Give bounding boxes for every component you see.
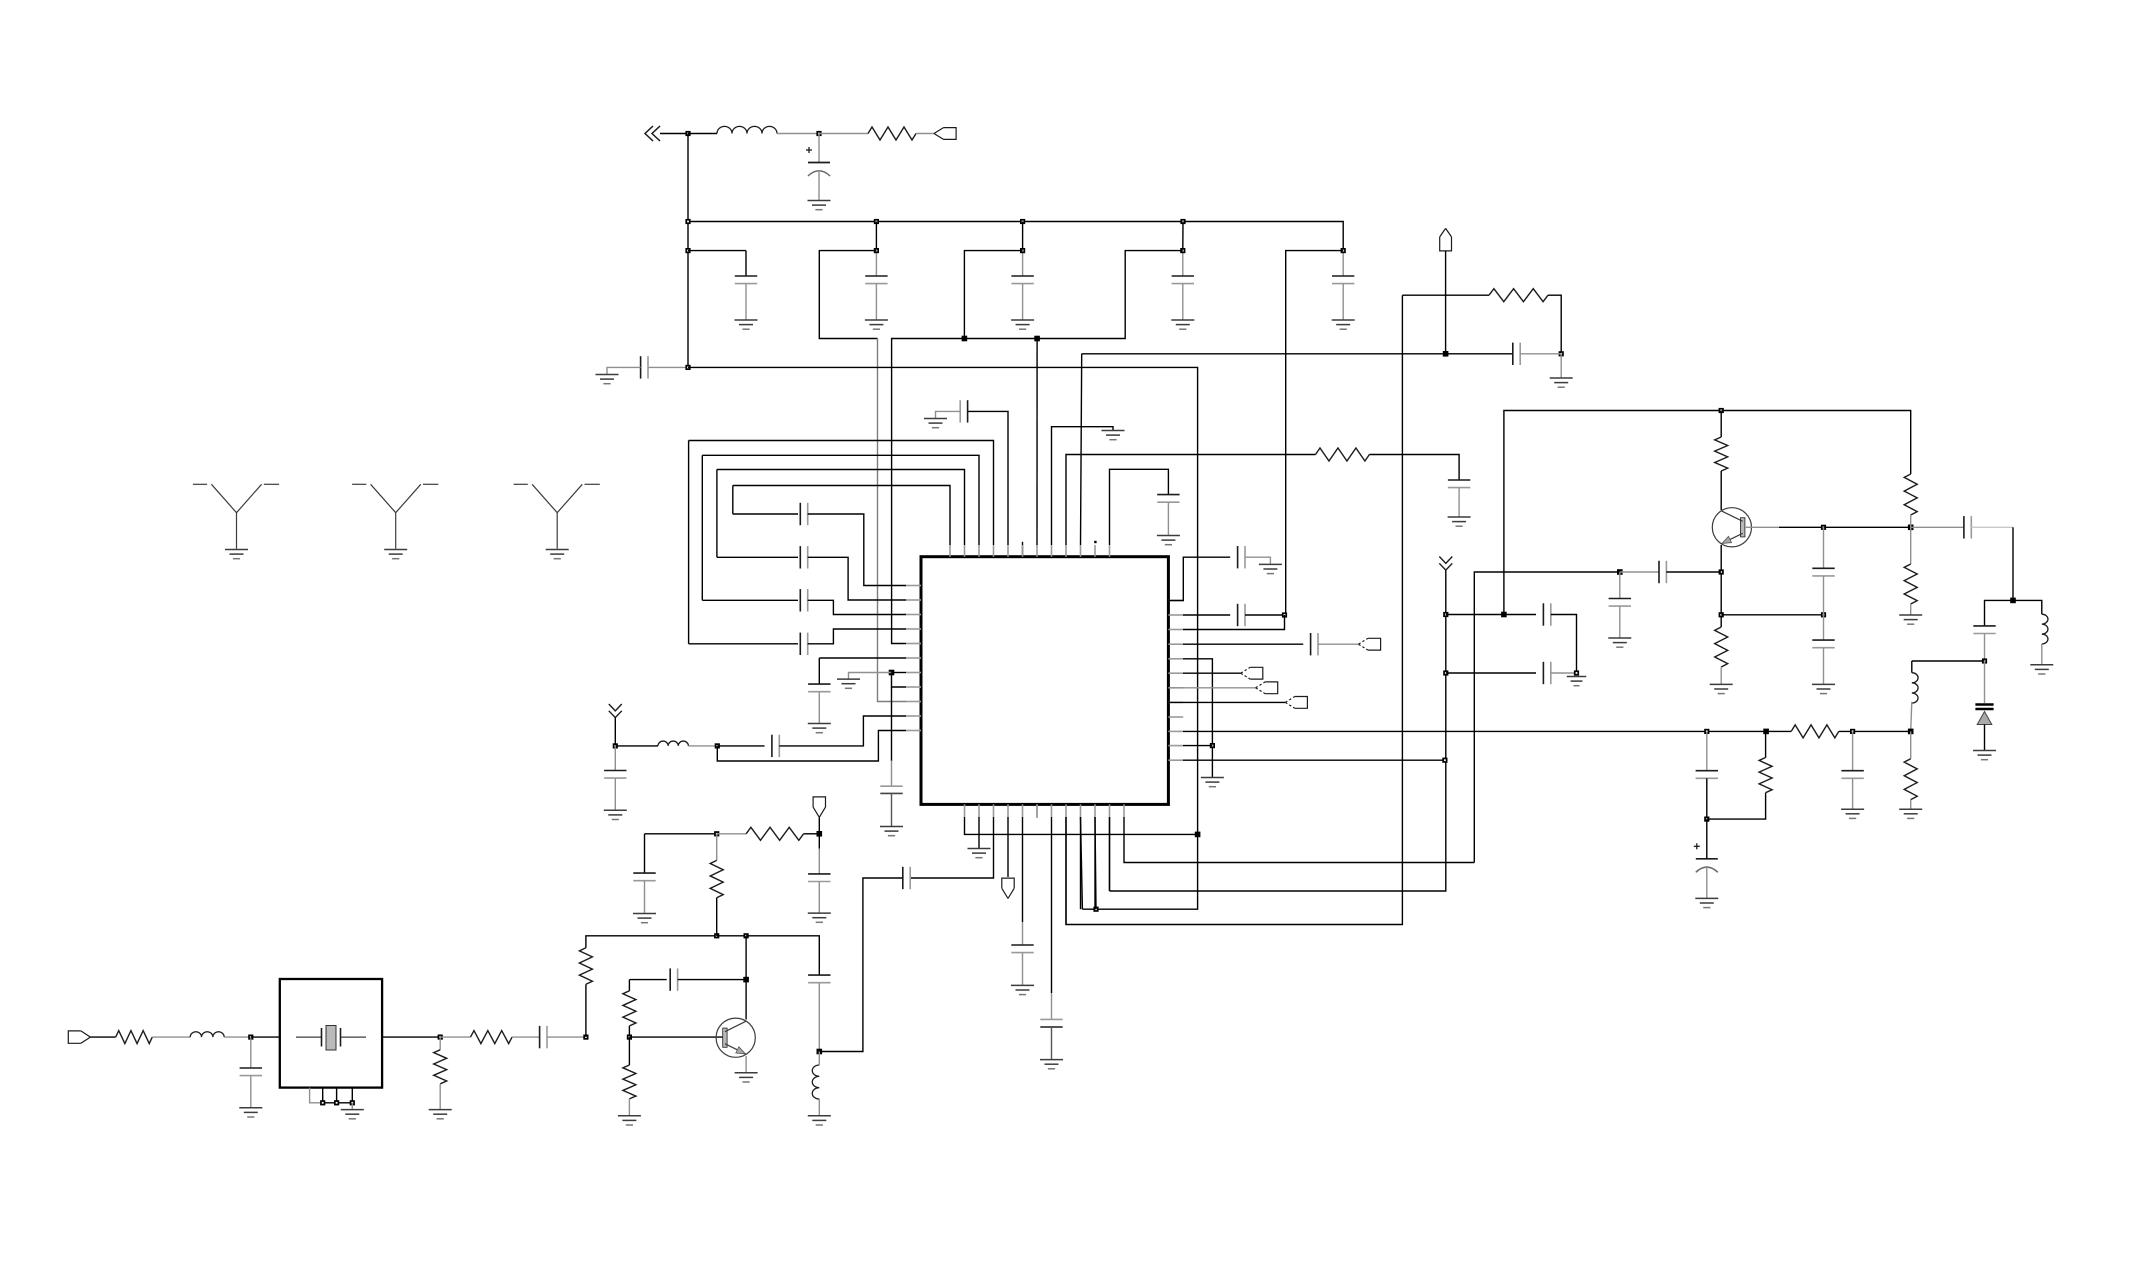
node [1908,729,1914,735]
ground [968,849,991,858]
ground [1011,320,1034,329]
capacitor C (series 673) [1543,662,1550,684]
node [1020,248,1025,253]
wire [614,778,616,810]
resistor R (pin9) [1316,448,1370,461]
port flag (R7) [1256,682,1278,694]
wire [1095,817,1096,909]
node [1210,743,1215,748]
wire [819,878,903,1052]
ground [808,913,831,922]
wire (4th ring to pin) [808,514,906,586]
ground [735,320,758,329]
wire [323,1102,353,1104]
ground [1899,809,1922,818]
ground [735,1073,758,1082]
wire (Q1 collector) [1720,411,1722,438]
wire (R8 row) [1168,701,1285,703]
wire [717,935,746,937]
wire [1245,557,1270,564]
capacitor C (pin5b) [1011,945,1033,953]
node [714,933,719,938]
capacitor C (fb) [808,975,830,983]
wire [818,882,820,913]
node [248,1035,253,1040]
wire [1910,731,1912,758]
wire (top pin8) [1052,427,1114,545]
wire [717,745,764,747]
wire [1342,251,1344,276]
wire [1520,353,1561,355]
resistor R (top right) [1489,289,1548,302]
wire [1081,817,1083,909]
wire [1182,284,1184,320]
wire (Q1 base lead) [1746,526,1779,528]
wire (pin9 route) [1080,817,1082,909]
wire [1706,819,1708,859]
node [1559,351,1564,356]
wire [1620,571,1659,573]
ground [1567,677,1587,686]
wire [382,1036,440,1038]
inductor L (left row) [658,741,688,746]
wire [1245,614,1285,616]
wire (R5/R11 gnd) [1183,659,1212,777]
wire [716,834,718,861]
wire (R4 row) [1183,643,1303,645]
resistor R (Q2 base down1) [623,991,636,1026]
wire [746,936,819,975]
capacitor C (bypass 3) [1011,276,1033,284]
ground [1040,1060,1063,1069]
node [874,248,879,253]
capacitor C (Q1 B-E) [1812,568,1834,576]
wire [688,250,746,252]
transistor Q1 (base right) [1712,508,1751,547]
wire (VDD bus) [688,222,1343,251]
node [1093,907,1098,912]
node [1982,658,1987,663]
capacitor C (series) [540,1026,547,1048]
wire [678,979,747,981]
transistor Q2 (base left) [716,1018,755,1057]
wire (top pin9 loop) [1066,455,1316,546]
node [1719,612,1724,617]
node [1704,817,1709,822]
wire [745,936,747,1020]
wire (stub2 arm) [819,251,877,339]
wire [1910,527,1912,564]
capacitor C (fb2) [670,968,677,990]
wire [644,834,646,873]
wire [916,133,934,135]
node [1821,612,1826,617]
wire (4th ring left) [732,486,734,515]
ground [1332,320,1355,329]
wire [1765,731,1767,757]
node [583,1035,588,1040]
wire (y354 line) [1082,353,1513,355]
node [1180,248,1185,253]
capacitor C (R4 series) [1311,633,1318,655]
wire [1720,471,1722,510]
node [1719,569,1724,574]
antenna chevrons (left) [609,704,622,718]
wire [688,745,717,747]
wire (outer ring top) [689,441,994,546]
node [320,1100,325,1105]
ground [1157,536,1180,545]
wire [818,834,820,849]
node [1704,729,1709,734]
wire [439,1037,441,1050]
wire [891,761,893,786]
node [962,336,968,342]
wire (outer ring to pin) [808,629,906,644]
wire [804,833,820,835]
wire [1720,667,1722,684]
inductor L (top filter) [717,126,777,133]
wire [1548,295,1561,354]
wire (x1504 vertical) [1504,411,1911,615]
wire [512,1036,540,1038]
wire (outer ring left) [688,441,690,644]
wire [586,936,717,948]
wire [585,984,587,1037]
ground [1710,684,1733,693]
wire (long horizontal to tall vertical) [688,367,1198,909]
wire [1984,725,1986,751]
node [1443,612,1448,617]
wire [875,284,877,320]
wire (4th ring bottom) [733,513,798,515]
ground [1973,751,1996,760]
wire (4th ring top) [733,486,950,546]
resistor R (Q2 base down2) [623,1065,636,1099]
wire (stub4 arm / net B) [892,251,1183,644]
wire (3rd ring left) [716,470,718,558]
wire [1823,527,1825,568]
ground [924,419,947,428]
crystal filter box [280,979,382,1088]
wire [644,881,646,913]
wire [1910,515,1912,527]
capacitor C (to left ground) [641,356,648,378]
wire [628,1099,630,1115]
wire (pin8 route) [1065,817,1067,925]
resistor R (Q1 collector) [1715,437,1728,471]
capacitor C (series 4th ring) [800,503,807,525]
inductor L (output) [2042,614,2048,644]
wire (box pins) [322,1088,324,1103]
varicap diode D (cathode bars) [1975,705,1993,710]
wire (3rd ring to pin) [808,557,906,600]
ground [546,550,569,559]
wire (L7 junction down) [891,687,893,761]
capacitor C (vco) [1973,626,1995,634]
node [743,977,749,983]
wire [1911,661,1913,673]
capacitor C (series left row) [772,735,779,757]
node [1443,670,1448,675]
wire [607,367,641,374]
wire (pin11 route) [1109,817,1111,891]
ground [633,914,656,923]
wire (614.8 row) [1721,614,1823,616]
wire [439,1084,441,1109]
node [613,743,618,748]
wire [1182,222,1184,251]
wire [2041,644,2043,664]
wire (pin7) [1051,817,1053,993]
wire [1852,731,1854,770]
port flag (osc) [813,797,825,817]
wire [1910,604,1912,615]
wire [351,1103,353,1109]
wire (pin10 route) [1094,817,1096,909]
wire (Q2 base) [629,1036,723,1038]
wire [250,1037,252,1068]
wire [1619,606,1621,637]
capacitor C (series 614) [1543,603,1550,625]
wire [1824,526,1911,528]
wire (pin5) [1022,817,1024,922]
wire [1081,354,1082,545]
capacitor C (at 1620) [1609,599,1631,607]
wire (x1402 tall vertical) [1066,295,1402,924]
capacitor C (bypass 1) [735,276,757,284]
node [874,219,879,224]
resistor R (Q1 bias lower) [1904,564,1917,604]
wire [892,673,907,688]
wire [1910,800,1912,809]
ground [1011,985,1034,994]
wire (833.8 row) [645,833,717,835]
stub (top pin6) [1022,542,1024,557]
capacitor C (pin5) [960,400,967,422]
wire [818,170,820,200]
wire [1823,615,1825,640]
wire (pin1 route) [965,817,1198,834]
wire [614,746,616,771]
wire [777,133,819,135]
wire [891,793,893,826]
wire [1706,778,1708,819]
node (819,133.5) [816,131,821,136]
wire [2012,527,2014,600]
wire (R6 row) [1183,672,1241,674]
capacitor C (rail 2) [1841,771,1863,779]
port flag (R4) [1359,638,1381,650]
node [685,248,690,253]
wire [688,133,717,135]
ground [1841,809,1864,818]
ground [604,810,627,819]
wire [1706,866,1708,898]
wire [1458,488,1460,517]
ground [429,1110,452,1119]
capacitor C (series, y354) [1513,343,1520,365]
wire (pin2 gnd) [978,817,980,848]
wire [779,716,906,746]
wire [1551,615,1577,674]
wire [1706,731,1708,770]
wire [819,133,868,135]
wire (R12 row) [1183,759,1445,761]
node [1020,219,1025,224]
node [1719,408,1724,413]
wire [818,1099,820,1115]
node [1282,612,1287,617]
node [2010,598,2016,604]
ground [1201,778,1224,787]
wire (R7 row) [1168,687,1255,689]
wire [614,718,616,746]
node [1850,729,1855,734]
ground [1695,898,1718,907]
wire [628,1037,630,1065]
wire [875,251,877,276]
wire [818,658,820,684]
wire [1823,576,1825,615]
capacitor C (series 2nd ring) [800,589,807,611]
wire [1318,643,1359,645]
IC U1 (main chip) [921,557,1168,805]
capacitor C (series 572) [1659,561,1666,583]
wire [1446,614,1536,616]
ground [1102,431,1125,440]
capacitor C (R1 series) [1238,546,1245,568]
wire (R10 rail right) [1839,730,1911,732]
wire [628,980,630,991]
wire (y572 line) [1474,572,1620,863]
wire [745,251,747,276]
port flag (R8) [1285,697,1307,709]
wire [1560,354,1562,378]
capacitor C (left shunt) [633,873,655,881]
capacitor C (pin3 series) [903,867,910,889]
wire (pin3 route) [910,817,993,878]
capacitor C (bypass 4) [1172,276,1194,284]
wire [716,898,718,936]
wire (pin12 route) [1124,817,1474,863]
node [817,1049,823,1055]
wire [1984,634,1986,662]
wire (661 row) [1912,660,1985,662]
wire [1985,600,2014,626]
ground [341,1110,364,1119]
node [1617,569,1623,575]
node [685,219,690,224]
wire [1551,672,1577,674]
node [1034,336,1040,342]
ground [1259,564,1282,573]
capacitor C (Q1 out series) [1964,516,1971,538]
wire [547,1036,586,1038]
wire (net A vertical) [878,339,907,702]
capacitor C (pin7) [1040,1019,1062,1027]
wire [717,833,746,835]
wire (chevron2 vertical) [1110,570,1446,891]
resistor R (rail end) [1904,759,1917,800]
ground [808,724,831,733]
resistor R (rail series) [1791,725,1839,738]
wire [936,411,961,418]
wire [892,672,907,674]
capacitor C (pin9) [1448,480,1470,488]
inductor L (to rail) [1912,673,1918,703]
node [1180,219,1185,224]
ground [1608,638,1631,647]
inductor L (input) [190,1032,224,1037]
resistor R (Q2 base up) [579,948,592,984]
node [1501,612,1507,618]
node (L7) [889,670,895,676]
wire (top pin12 loop) [1110,469,1169,545]
wire (fb cap row) [629,979,666,981]
capacitor C (flag shunt) [808,874,830,882]
ground [239,1108,262,1117]
wire [1984,661,1986,703]
capacitor C (L6) [808,684,830,692]
node [1341,248,1346,253]
wire (2nd ring left) [701,455,703,600]
wire [660,133,688,135]
wire [1109,817,1111,891]
wire (y295 loop) [1402,294,1489,296]
wire (flag stem) [1445,251,1447,354]
resistor R (Q1 emitter) [1715,627,1728,667]
Y-network symbol [193,484,279,548]
resistor R (input) [116,1031,153,1044]
wire [250,1076,252,1108]
node [350,1100,355,1105]
wire [818,692,820,723]
wire (pin4) [1007,817,1009,877]
capacitor C (under chevron) [604,771,626,779]
varicap diode D (anode triangle) [1977,712,1992,725]
wire [1619,572,1621,599]
node [1442,758,1447,763]
ground [808,201,831,210]
ground [2030,665,2053,674]
wire [1446,672,1536,674]
node [1821,525,1826,530]
capacitor C (rail 1) [1696,771,1718,779]
wire [1022,953,1024,985]
ground [1448,517,1471,526]
ground [865,320,888,329]
connector chevron arrow (top-left net) [645,126,660,141]
wire (box pin a) [310,1088,323,1103]
wire [1779,526,1824,528]
resistor R (shunt) [434,1050,447,1084]
capacitor C (bypass 2) [865,276,887,284]
wire (2nd ring top) [702,455,979,545]
node [334,1100,339,1105]
ground [1550,378,1573,387]
node [1574,670,1579,675]
wire [1022,222,1024,251]
wire (R2 row) [1183,614,1230,616]
port flag (top right) [934,128,956,140]
wire [90,1036,115,1038]
Y-network symbol [352,484,438,548]
polarized capacitor C (rail) [1694,843,1718,872]
wire [615,745,658,747]
resistor R (mid) [710,860,723,897]
capacitor C (pin12) [1157,495,1179,503]
